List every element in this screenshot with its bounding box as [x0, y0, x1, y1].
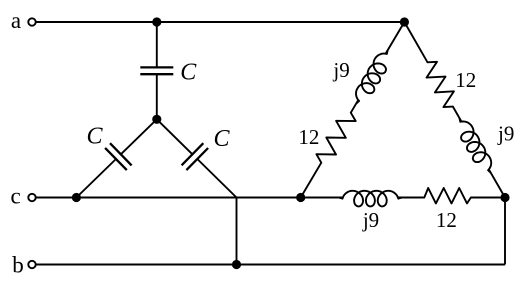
terminal a [28, 18, 35, 25]
junction dot cap-delta top vertex [152, 115, 161, 124]
wire from top vertex to resistor R2 [404, 22, 427, 62]
junction dot right delta bottom-left vertex [296, 193, 305, 202]
terminal c [28, 194, 35, 201]
wire from resistor R3 to bottom-right vertex [471, 197, 505, 199]
label j9 (inductor L2 value) [497, 122, 514, 146]
wire from node on wire c down to wire b [236, 198, 238, 265]
svg-text:a: a [11, 8, 21, 33]
resistor R2 (12) on right diagonal [427, 62, 454, 107]
label c [10, 184, 20, 209]
wire from inductor L2 to bottom-right vertex [489, 170, 505, 198]
label 12 (resistor R1 value) [298, 125, 319, 149]
svg-text:12: 12 [436, 208, 457, 232]
wire bottom: terminal b to bottom-right corner [36, 264, 505, 266]
wire from top node down to capacitor C1 [156, 22, 158, 67]
svg-text:C: C [86, 124, 103, 150]
wire between inductor L1 and resistor R1 [351, 100, 358, 112]
inductor L1 (j9) on left diagonal [356, 51, 388, 103]
label b [12, 252, 24, 277]
capacitor C1 plates [140, 67, 173, 74]
label 12 (resistor R3 value) [436, 208, 457, 232]
label j9 (inductor L1 value) [332, 58, 349, 82]
label C (capacitor C1 value) [180, 60, 197, 86]
svg-text:j9: j9 [362, 208, 379, 232]
wire top: terminal a to right delta top vertex [36, 21, 405, 23]
svg-text:C: C [213, 126, 230, 152]
junction dot node at top of capacitor branch [152, 17, 161, 26]
terminal b [28, 261, 35, 268]
label C (capacitor C3 value) [213, 126, 230, 152]
wire from capacitor C1 down to cap-delta top vertex [156, 74, 158, 119]
label C (capacitor C2 value) [86, 124, 103, 150]
inductor L3 (j9) on bottom branch [340, 191, 402, 207]
svg-text:b: b [12, 252, 24, 277]
label j9 (inductor L3 value) [362, 208, 379, 232]
wire right side: bottom-right corner up to right delta bottom-right vertex [504, 198, 506, 265]
junction dot right delta top vertex [400, 17, 409, 26]
wire from top vertex to inductor L1 [386, 22, 405, 53]
junction dot on wire b [232, 260, 241, 269]
resistor R3 (12) on bottom branch [424, 188, 471, 203]
capacitor C2 on left leg of cap delta (with wires) [76, 119, 156, 197]
wire from resistor R1 to bottom-left vertex [301, 163, 322, 198]
svg-text:C: C [180, 60, 197, 86]
wire between inductor L3 and resistor R3 [398, 197, 424, 199]
label a [11, 8, 21, 33]
wire from bottom-left vertex to inductor L3 [301, 197, 343, 199]
junction dot right delta bottom-right vertex [500, 193, 509, 202]
svg-text:12: 12 [298, 125, 319, 149]
svg-text:12: 12 [455, 68, 476, 92]
capacitor C3 on right leg of cap delta (with wires) [157, 119, 237, 197]
inductor L2 (j9) on right diagonal [460, 119, 492, 173]
wire middle: terminal c to right delta bottom-left vertex [36, 197, 301, 199]
label 12 (resistor R2 value) [455, 68, 476, 92]
junction dot cap-delta bottom-left on wire c [72, 193, 81, 202]
wire between resistor R2 and inductor L2 [453, 107, 461, 122]
svg-text:c: c [10, 184, 20, 209]
svg-text:j9: j9 [332, 58, 349, 82]
svg-text:j9: j9 [497, 122, 514, 146]
resistor R1 (12) on left diagonal [316, 113, 355, 163]
